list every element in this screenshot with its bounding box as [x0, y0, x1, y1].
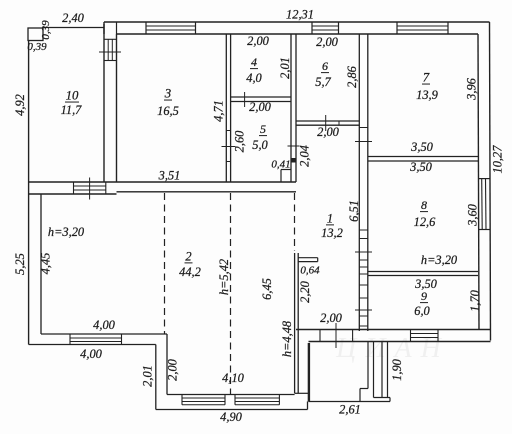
tick on wall 10-3 — [99, 51, 121, 53]
svg-text:4,00: 4,00 — [93, 318, 115, 332]
main horizontal wall, top line — [29, 181, 296, 183]
svg-text:2,00: 2,00 — [166, 358, 180, 380]
svg-text:2: 2 — [185, 249, 191, 263]
door/window box in wall 10-3 — [104, 38, 117, 40]
wall between rooms 8 and 9 — [368, 271, 478, 273]
main horizontal wall, bottom line right — [117, 191, 297, 193]
svg-text:2,61: 2,61 — [339, 403, 361, 417]
svg-text:4,90: 4,90 — [220, 410, 242, 424]
svg-text:2,00: 2,00 — [317, 125, 339, 139]
svg-text:0,41: 0,41 — [271, 159, 290, 171]
svg-text:44,2: 44,2 — [179, 265, 201, 279]
svg-text:0,64: 0,64 — [300, 265, 320, 277]
tick on door of room 1 — [335, 323, 337, 348]
window W6 in top wall above room 6 — [338, 22, 340, 34]
svg-text:9: 9 — [421, 289, 427, 303]
wall between rooms 3 and 4/5 — [225, 34, 227, 182]
extension right wall bottom cap — [295, 392, 309, 394]
svg-text:3,60: 3,60 — [466, 203, 480, 226]
porch step top — [360, 388, 368, 390]
svg-text:2,04: 2,04 — [298, 145, 312, 167]
outer top-left porch pillar — [28, 28, 43, 41]
extension window right — [234, 395, 236, 405]
tick on wall 3-5 — [222, 146, 236, 148]
svg-text:1,70: 1,70 — [468, 289, 482, 311]
wall between rooms 6 and 7, continuing as wall of room 1 — [358, 34, 360, 331]
extension left inner wall — [166, 334, 168, 395]
divider on wall 6-1 — [338, 121, 340, 125]
dashed zone line right — [294, 193, 296, 251]
window W3 in top wall above room 3 — [195, 22, 197, 34]
extension bottom inner line — [167, 394, 295, 396]
wall between rooms 10 and 3 — [103, 24, 105, 182]
svg-text:2,00: 2,00 — [247, 34, 269, 48]
svg-text:4,0: 4,0 — [246, 71, 262, 85]
stub wall 0.64 in room 1 — [298, 257, 318, 259]
bottom wall of rooms 1 and 9, top line — [296, 329, 491, 331]
svg-text:3,50: 3,50 — [410, 140, 433, 154]
svg-text:16,5: 16,5 — [157, 104, 179, 118]
bottom wall of rooms 1 and 9, bottom line — [309, 341, 491, 343]
svg-text:13,9: 13,9 — [416, 88, 438, 102]
svg-text:0,39: 0,39 — [27, 41, 47, 53]
right outer wall — [490, 22, 491, 341]
porch ground line 2.61 — [309, 401, 391, 403]
tick 2.86/6.51 boundary — [355, 141, 372, 143]
svg-text:h=3,20: h=3,20 — [421, 253, 458, 267]
svg-text:4,71: 4,71 — [212, 100, 226, 122]
tick on room 1 right wall lower — [355, 309, 372, 311]
svg-text:11,7: 11,7 — [61, 103, 83, 117]
porch passage left inner line — [373, 342, 375, 398]
top wall box divider x117 — [116, 22, 118, 34]
extension bottom-right step — [307, 402, 309, 410]
top wall corner block 10/3 — [103, 22, 105, 34]
svg-text:6: 6 — [322, 59, 328, 73]
tick on wall 4-5 — [244, 92, 246, 107]
lower-left room bottom wall outer line — [29, 344, 156, 346]
tick on main wall hatch — [89, 178, 91, 200]
doorway hatch in main wall below room 10 — [73, 182, 75, 194]
wall between rooms 4 and 5 — [231, 96, 291, 98]
svg-text:4,00: 4,00 — [80, 347, 102, 361]
thick wall right of extension — [308, 343, 310, 402]
svg-text:h=4,48: h=4,48 — [280, 320, 294, 357]
top wall box divider x146 — [145, 22, 147, 34]
lower-left room left inner wall — [40, 194, 42, 334]
porch right riser — [389, 398, 391, 402]
svg-text:1,90: 1,90 — [390, 358, 404, 380]
svg-text:4,45: 4,45 — [39, 253, 53, 275]
svg-text:4: 4 — [251, 55, 257, 69]
svg-text:2,20: 2,20 — [298, 280, 312, 302]
porch passage left outer line — [367, 342, 369, 389]
svg-text:2,00: 2,00 — [249, 100, 271, 114]
extension bottom outer line — [156, 409, 308, 411]
svg-text:2,00: 2,00 — [320, 311, 342, 325]
tick on wall 5-1 — [288, 145, 300, 147]
rungs on room 1 right wall — [359, 229, 368, 231]
svg-text:5,0: 5,0 — [252, 138, 268, 152]
svg-text:2,01: 2,01 — [141, 365, 155, 387]
wall between rooms 4/5 and 6/1 — [290, 34, 292, 182]
svg-text:13,2: 13,2 — [321, 226, 343, 240]
closet stub 0.41 in room 1 — [281, 169, 291, 171]
svg-text:7: 7 — [423, 70, 430, 84]
window W7 in top wall above room 7 — [447, 22, 449, 34]
wall between rooms 7 and 8 — [368, 156, 478, 158]
svg-text:2,00: 2,00 — [316, 35, 338, 49]
left outer wall — [28, 41, 30, 345]
svg-text:6,45: 6,45 — [260, 278, 274, 300]
svg-text:10,27: 10,27 — [491, 145, 505, 174]
svg-text:6,51: 6,51 — [347, 200, 361, 222]
door box in bottom wall of room 1 — [319, 330, 321, 342]
svg-text:10: 10 — [66, 88, 79, 102]
tick on room 1 right wall upper — [355, 251, 372, 253]
svg-text:2,60: 2,60 — [233, 130, 247, 152]
svg-text:2,86: 2,86 — [345, 65, 359, 87]
top wall outer line — [104, 21, 490, 23]
svg-text:3,96: 3,96 — [465, 77, 479, 100]
svg-text:4,10: 4,10 — [222, 371, 244, 385]
solid segment on wall 5-1 — [291, 159, 296, 163]
lower-left room bottom wall inner line — [41, 333, 167, 335]
svg-text:12,6: 12,6 — [414, 215, 436, 229]
room 1 left wall — [294, 253, 296, 393]
svg-text:4,92: 4,92 — [13, 94, 27, 116]
dashed zone line left — [164, 193, 166, 334]
wall between room 6 and room 1 — [296, 120, 359, 122]
svg-text:2,40: 2,40 — [62, 11, 84, 25]
svg-text:h=5,42: h=5,42 — [217, 259, 231, 295]
svg-text:3,51: 3,51 — [158, 169, 181, 183]
svg-text:h=3,20: h=3,20 — [48, 225, 85, 239]
porch passage right outer line — [387, 342, 389, 398]
svg-text:0,39: 0,39 — [40, 20, 52, 40]
svg-text:1: 1 — [327, 211, 333, 225]
tick on wall 6-1 — [325, 115, 327, 131]
svg-text:12,31: 12,31 — [286, 8, 314, 22]
main horizontal wall, bottom line left — [29, 193, 117, 195]
extension left outer wall — [155, 345, 157, 410]
dashed zone line middle — [230, 193, 232, 395]
top wall box divider x397 — [396, 22, 398, 34]
porch passage right inner line — [381, 342, 383, 398]
svg-text:8: 8 — [421, 198, 427, 212]
svg-text:5,25: 5,25 — [13, 253, 27, 275]
top wall inner line — [117, 33, 479, 35]
window in lower-left room bottom wall — [69, 334, 71, 345]
svg-text:2,01: 2,01 — [278, 57, 292, 79]
svg-text:3,50: 3,50 — [409, 160, 432, 174]
top wall box divider x312 — [311, 22, 313, 34]
window W8 in right wall — [478, 178, 490, 180]
extension window left — [181, 395, 183, 405]
svg-text:5,7: 5,7 — [315, 75, 331, 89]
porch top wall line 2.40 — [43, 27, 104, 29]
right inner wall — [478, 34, 479, 330]
porch passage bottom line — [374, 397, 391, 399]
junction rung at wall 6-1 — [359, 127, 368, 129]
svg-text:5: 5 — [260, 122, 266, 136]
rungs on wall 3-5 — [226, 130, 230, 132]
svg-text:6,0: 6,0 — [414, 304, 430, 318]
hatch box in bottom wall of room 9 — [410, 330, 412, 342]
svg-text:3: 3 — [164, 86, 171, 100]
porch step left side — [359, 389, 361, 402]
